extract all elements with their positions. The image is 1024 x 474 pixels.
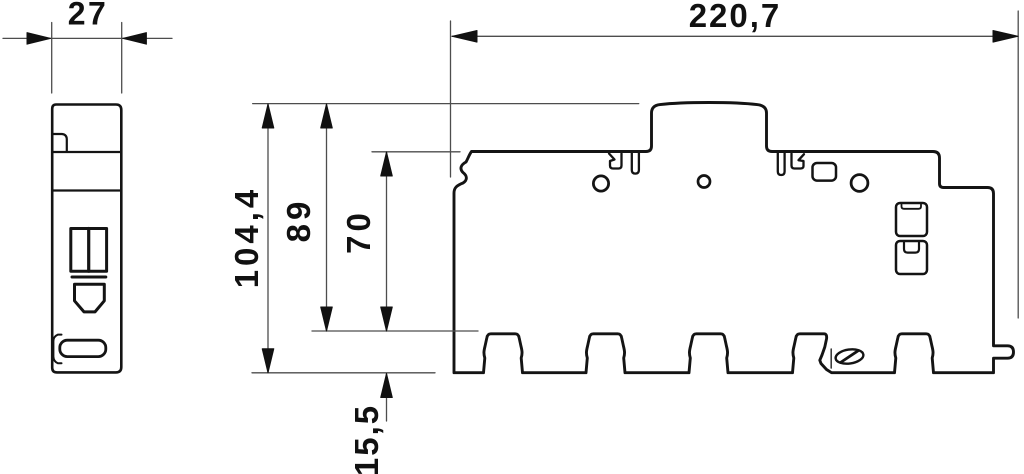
hole center [698,176,710,188]
clip hook left [609,154,622,169]
button [813,163,837,181]
main outline [454,103,1014,373]
dim 89 arrow bottom [321,307,333,331]
svg-text:27: 27 [68,0,109,32]
side view slot [60,340,106,356]
side view line A [52,151,121,153]
screw slot line [841,351,859,363]
dim 104,4 arrow top [262,104,274,128]
dim 220,7 ext right [1017,11,1019,318]
screw oval [835,348,865,366]
clip pin right [778,152,785,175]
dim 15,5 line [386,373,388,421]
cover lower notch [904,243,919,253]
ext line shoulder [372,151,460,153]
dim 220,7 line [452,35,1018,37]
cover lower [896,241,927,274]
dim 27 arrow left [27,33,51,45]
dim 27 ext left [51,23,53,94]
dim 220,7 ext left [450,21,452,177]
dim 27 arrow right [123,33,146,45]
ext line slot-top [312,330,478,332]
dim 27 line [3,37,172,39]
dim 27 ext right [121,23,123,94]
dim 70 arrow bottom [381,307,393,331]
dim 70 line [386,152,388,331]
dim 104,4 arrow bottom [262,349,274,373]
dim 104,4 line [267,104,269,373]
side view clamp divider [87,229,90,272]
hole left [593,176,608,191]
side view step notch [53,134,67,152]
dim 220,7 arrow left [452,31,477,43]
dim 89 line [326,104,328,331]
svg-text:220,7: 220,7 [689,0,782,34]
clip hook right [792,154,805,169]
dim 70 arrow top [381,152,393,176]
side view bar [72,276,106,279]
dim 89 arrow top [321,104,333,128]
ext line bottom [252,372,435,374]
side view body [52,105,121,373]
dim 220,7 arrow right [993,31,1018,43]
svg-text:15,5: 15,5 [348,404,385,474]
side view line B [52,189,121,191]
cover upper [896,203,927,236]
dim 15,5 arrow [381,374,393,398]
hole right [851,175,868,192]
ext line top [253,103,639,105]
svg-text:70: 70 [340,209,377,254]
cover upper notch [902,205,922,209]
side view clamp [71,229,107,272]
svg-text:104,4: 104,4 [228,186,265,289]
side view left bump [53,335,61,364]
clip pin left [632,152,639,174]
side view funnel [75,284,105,312]
svg-text:89: 89 [280,198,317,243]
latch line [830,349,832,368]
